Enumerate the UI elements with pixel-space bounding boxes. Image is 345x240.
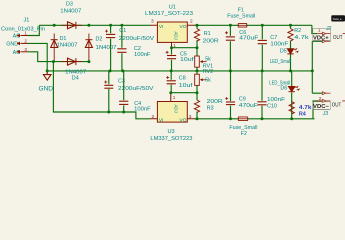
connector J1 pin names (6, 34, 20, 56)
wire U3 adj to R3 column (171, 92, 197, 94)
node D5 D6 on GND rail (289, 69, 292, 72)
node GND to connectors (311, 69, 314, 72)
svg-text:4.7k: 4.7k (299, 105, 312, 111)
diode D4 (62, 58, 83, 65)
svg-text:Fuse_Small: Fuse_Small (229, 125, 257, 131)
potentiometer RV2 (195, 71, 207, 93)
wire bridge bottom (53, 61, 89, 63)
svg-text:3: 3 (24, 47, 27, 52)
diode D1 (51, 34, 58, 62)
wire J2 V+ drop (312, 25, 317, 33)
ground symbol (43, 71, 51, 80)
svg-text:D3: D3 (66, 2, 73, 8)
svg-text:1N4007: 1N4007 (60, 8, 81, 14)
node C2 C4 on GND rail (121, 69, 124, 72)
svg-text:OUT: OUT (333, 35, 343, 41)
node C2 on V+ rail (120, 24, 123, 27)
svg-text:J3: J3 (322, 111, 329, 117)
node C6 on V+ rail (229, 24, 232, 27)
capacitor C2 (117, 25, 126, 71)
svg-text:ADJ: ADJ (173, 105, 178, 113)
node D1 bottom AC2 (52, 60, 55, 63)
resistor R4 (289, 102, 294, 115)
svg-text:1: 1 (318, 27, 321, 32)
svg-text:Conn_01x03_Pin: Conn_01x03_Pin (1, 27, 45, 33)
svg-text:2: 2 (24, 39, 27, 44)
tooltip overlay (331, 15, 345, 21)
svg-text:VO: VO (180, 117, 187, 123)
capacitor C3 (104, 71, 113, 112)
node R4 on V- rail (290, 117, 293, 120)
svg-text:1N4007: 1N4007 (96, 45, 117, 51)
svg-text:1: 1 (173, 95, 176, 100)
capacitor C5 (166, 48, 177, 71)
svg-text:Fuse_Small: Fuse_Small (227, 13, 255, 19)
node C4 on V- rail (122, 111, 125, 114)
connector J1 pin numbers (24, 31, 27, 52)
node C9 on V- rail (229, 117, 232, 120)
wire pin2 GND down (28, 43, 47, 71)
svg-text:U3: U3 (168, 129, 175, 135)
connector J1 reference label (1, 17, 45, 32)
connector J2 pin line to edge (343, 33, 345, 35)
node C10 on V- rail (261, 117, 264, 120)
svg-text:2: 2 (190, 19, 193, 25)
svg-text:J1: J1 (24, 17, 30, 23)
svg-text:R3: R3 (207, 106, 214, 112)
svg-text:F2: F2 (241, 131, 247, 137)
svg-text:VI: VI (159, 24, 164, 30)
connector J2 (317, 32, 331, 43)
diode D2 (85, 34, 92, 62)
regulator U3 (150, 93, 195, 124)
wire J3 V- rise (313, 101, 322, 119)
svg-text:10uf: 10uf (179, 83, 193, 89)
wire pin3 AC down to bridge bottom (28, 52, 53, 62)
svg-text:100nF: 100nF (270, 41, 289, 47)
svg-text:200R: 200R (203, 39, 219, 45)
connector J1 pin 1 graphic (17, 34, 29, 54)
svg-text:ADJ: ADJ (173, 32, 178, 40)
svg-text:VDC+: VDC+ (313, 35, 329, 41)
wire top rail (39, 24, 150, 26)
svg-text:4.7k: 4.7k (294, 35, 309, 41)
LED D5 (287, 44, 298, 71)
connector J1 pin 3 graphic (21, 51, 29, 53)
svg-text:C7: C7 (270, 35, 277, 41)
regulator U1 (150, 19, 195, 48)
svg-text:2: 2 (319, 96, 322, 101)
svg-text:1N4007: 1N4007 (57, 43, 78, 49)
wire J2 pin2 stub (312, 40, 322, 42)
node D2 bottom (87, 60, 90, 63)
capacitor C8 (166, 71, 176, 93)
connector J1 pin 2 graphic (21, 42, 29, 44)
node RV1 RV2 on GND rail (196, 69, 199, 72)
node C6 C9 on GND rail (229, 69, 232, 72)
LED D6 (289, 71, 300, 119)
capacitor C7 (258, 25, 267, 71)
svg-text:OUT: OUT (332, 103, 342, 109)
wire negative takeoff (53, 62, 150, 119)
svg-text:2200uF/50V: 2200uF/50V (119, 36, 155, 42)
svg-text:VDC−: VDC− (313, 104, 330, 110)
node D1 top on V+ rail (53, 24, 56, 27)
svg-text:1: 1 (24, 31, 27, 36)
svg-text:C8: C8 (179, 76, 186, 82)
node D2 top on V+ rail (87, 24, 90, 27)
svg-text:LM317_SOT-223: LM317_SOT-223 (145, 11, 193, 17)
svg-text:3: 3 (189, 114, 192, 120)
node C5 C8 on GND rail (170, 69, 173, 72)
node C7 on V+ rail (261, 24, 264, 27)
resistor R2 (288, 25, 293, 44)
wire bottom rail (195, 118, 315, 120)
node C1 on V+ rail (109, 24, 112, 27)
svg-text:2: 2 (152, 114, 155, 120)
svg-text:1N4007: 1N4007 (65, 69, 86, 75)
node R1 on V+ rail (196, 24, 199, 27)
svg-text:200R: 200R (207, 99, 223, 105)
label VDC- (313, 102, 331, 110)
svg-text:470uF: 470uF (239, 36, 259, 42)
svg-text:470uF: 470uF (239, 103, 259, 109)
capacitor C4 (119, 71, 128, 112)
wire ground rail (47, 70, 312, 72)
svg-text:VI: VI (159, 117, 164, 123)
node R3 on V- rail (196, 117, 199, 120)
capacitor C6 (225, 25, 235, 71)
svg-text:100nF: 100nF (134, 52, 151, 58)
svg-text:R1: R1 (204, 31, 211, 37)
svg-text:100nF: 100nF (134, 107, 151, 113)
svg-text:LM337_SOT223: LM337_SOT223 (150, 136, 192, 142)
capacitor C9 (225, 71, 235, 119)
svg-text:5k: 5k (205, 56, 211, 62)
svg-text:LED_Small: LED_Small (270, 59, 291, 65)
resistor R1 (194, 25, 199, 47)
capacitor C10 (257, 71, 266, 119)
svg-text:RV2: RV2 (203, 69, 213, 75)
svg-text:R2: R2 (294, 28, 301, 34)
svg-text:D1: D1 (60, 36, 67, 42)
potentiometer RV1 (195, 48, 207, 71)
fuse F2 (238, 117, 247, 121)
svg-text:GND: GND (6, 42, 18, 48)
connector J3 pin line to edge (342, 100, 345, 102)
diode D3 (62, 22, 83, 29)
wire GND to connectors column (311, 41, 313, 93)
wire J3 pin1 stub (312, 92, 322, 94)
svg-text:D4: D4 (72, 76, 79, 82)
wire U1 adj to R1 column (172, 47, 198, 49)
node C7 C10 on GND rail (261, 69, 264, 72)
svg-text:U1: U1 (169, 5, 176, 11)
node C5 on adj wire (170, 46, 173, 49)
node GND stub (46, 69, 49, 72)
svg-text:GND: GND (39, 86, 54, 92)
svg-text:D5: D5 (280, 48, 287, 54)
label VDC+ (313, 29, 331, 41)
node R2 on V+ rail (289, 24, 292, 27)
wire pin1 AC to top rail (28, 25, 39, 35)
node C8 on neg adj wire (169, 91, 172, 94)
svg-text:Tabs a: Tabs a (333, 17, 342, 21)
svg-text:VO: VO (180, 24, 187, 30)
svg-text:D2: D2 (96, 36, 103, 42)
node C3 on V- rail (107, 111, 110, 114)
node C1 C3 on GND rail (109, 69, 112, 72)
connector J3 (317, 92, 331, 103)
svg-text:10uf: 10uf (180, 57, 194, 63)
svg-text:LED_Small: LED_Small (269, 80, 290, 86)
node R3 top neg adj (196, 91, 199, 94)
svg-text:R4: R4 (299, 112, 306, 118)
svg-text:100nF: 100nF (267, 97, 286, 103)
capacitor C1 (105, 25, 115, 71)
svg-text:C9: C9 (239, 96, 246, 102)
node R1 bottom adj (196, 46, 199, 49)
fuse F1 (238, 23, 247, 27)
resistor R3 (194, 93, 199, 119)
svg-text:C1: C1 (119, 28, 126, 34)
svg-text:C10: C10 (267, 104, 277, 110)
svg-text:3: 3 (151, 19, 154, 25)
svg-text:5k: 5k (205, 77, 211, 83)
